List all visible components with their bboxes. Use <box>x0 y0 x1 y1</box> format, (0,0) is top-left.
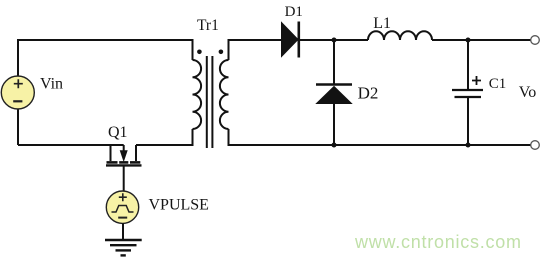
transformer polarity dot secondary <box>219 50 224 55</box>
junction node C1 bottom rail <box>466 143 471 148</box>
svg-text:Vo: Vo <box>519 84 537 101</box>
voltage source Vin <box>1 76 34 109</box>
capacitor C1 plates <box>452 90 483 97</box>
wire primary bottom rail left (Vin to Q1 drain) <box>18 144 124 146</box>
svg-text:C1: C1 <box>489 76 507 92</box>
svg-text:L1: L1 <box>373 15 391 32</box>
junction node A (D1/D2/L1) <box>332 38 337 43</box>
wire primary bottom rail right (Q1 source to Tr1) <box>136 129 193 145</box>
transformer polarity dot primary <box>197 50 202 55</box>
wire L1 to output node and top terminal <box>432 39 531 41</box>
wire primary top rail and left leg <box>18 40 193 145</box>
output terminal top <box>531 36 540 45</box>
wire D2 anode down to bottom rail <box>333 103 335 145</box>
wire D1 cathode to node A <box>299 39 368 41</box>
transformer Tr1 secondary winding <box>220 60 229 129</box>
wire secondary bottom rail <box>229 129 532 145</box>
wire VPULSE to ground <box>122 223 124 240</box>
capacitor C1 plus sign <box>472 76 481 85</box>
wire node A down to D2 cathode <box>333 40 335 84</box>
diode D1 <box>282 22 299 58</box>
svg-text:Vin: Vin <box>40 76 63 93</box>
transformer Tr1 core lines <box>207 56 213 148</box>
wire C1 leads <box>467 40 469 145</box>
svg-text:VPULSE: VPULSE <box>149 197 209 214</box>
pulse source VPULSE <box>106 191 138 223</box>
transformer Tr1 primary winding <box>193 60 202 129</box>
diode D2 <box>316 85 352 104</box>
svg-text:D2: D2 <box>358 83 379 102</box>
ground <box>105 240 142 255</box>
svg-text:Q1: Q1 <box>108 124 128 141</box>
junction node D2 bottom rail <box>332 143 337 148</box>
inductor L1 <box>368 31 432 40</box>
junction node output top (L1/C1) <box>466 38 471 43</box>
svg-text:www.cntronics.com: www.cntronics.com <box>354 232 522 252</box>
transistor Q1 MOSFET <box>106 145 142 192</box>
svg-text:D1: D1 <box>285 4 303 20</box>
wire secondary top rail to D1 anode <box>229 40 282 60</box>
output terminal bottom <box>531 141 540 150</box>
svg-text:Tr1: Tr1 <box>197 17 219 34</box>
